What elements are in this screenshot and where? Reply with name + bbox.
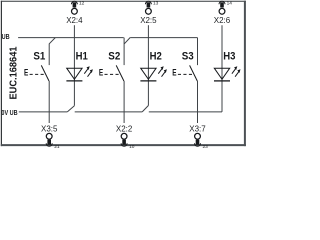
wire: UB tap diagonal to S1 — [49, 38, 55, 44]
plug pin X2:5 (top) — [145, 1, 151, 7]
plug pin X3:5 (bottom) — [46, 140, 52, 147]
LED H3 triangle (anode) — [214, 68, 229, 79]
LED H1 emission arrow 2 — [88, 69, 93, 76]
LED H3 emission arrow 2 — [235, 69, 240, 76]
svg-text:0V UB: 0V UB — [1, 108, 17, 117]
connector circle X2:6 — [219, 8, 225, 14]
LED H2 triangle (anode) — [141, 68, 156, 79]
wire: 0V rail segment A — [19, 111, 68, 113]
wire: 0V rail segment B — [75, 111, 143, 113]
LED H3 cathode bar — [214, 80, 230, 82]
LED H2 emission arrow 1 — [158, 66, 163, 73]
plug pin X2:2 (bottom) — [121, 140, 127, 147]
connector circle X3:5 — [46, 133, 52, 139]
svg-text:23: 23 — [203, 144, 209, 150]
svg-text:14: 14 — [227, 0, 233, 6]
wire: 0V rail segment C — [149, 111, 222, 113]
LED H2 emission arrow 2 — [162, 69, 167, 76]
wire: S1 upper terminal — [48, 44, 50, 66]
wire: 0V diagonal from H2 — [142, 106, 148, 112]
svg-text:E: E — [24, 66, 28, 77]
LED H1 cathode bar — [66, 80, 82, 82]
LED H1 emission arrow 1 — [84, 66, 89, 73]
wire: S2 lower terminal to connector — [123, 81, 125, 123]
wire: H1 branch vertical — [73, 25, 75, 106]
svg-text:S3: S3 — [182, 51, 194, 63]
wire: H3 branch vertical — [221, 25, 223, 112]
wire: UB rail segment A — [18, 37, 124, 39]
svg-text:H1: H1 — [76, 51, 88, 63]
wire: 0V diagonal from H1 — [67, 106, 74, 112]
svg-text:EUC.168641: EUC.168641 — [8, 46, 19, 99]
svg-text:13: 13 — [153, 0, 159, 6]
svg-text:X2:5: X2:5 — [140, 15, 157, 25]
wire: S1 lower terminal to connector — [48, 81, 50, 123]
svg-text:12: 12 — [79, 0, 85, 6]
switch S2 blade (NO contact) — [116, 65, 124, 81]
plug pin X2:4 (top) — [71, 1, 77, 7]
LED H3 emission arrow 1 — [232, 66, 237, 73]
svg-text:X3:7: X3:7 — [189, 124, 206, 134]
svg-text:S1: S1 — [33, 51, 45, 63]
svg-text:H2: H2 — [150, 51, 162, 63]
actuator dashed link of S3 — [178, 73, 192, 75]
border frame bottom — [1, 144, 246, 146]
connector circle X2:4 — [72, 8, 78, 14]
svg-text:E: E — [99, 66, 103, 77]
svg-text:X3:5: X3:5 — [41, 124, 58, 134]
connector circle X2:2 — [121, 133, 127, 139]
connector circle X2:5 — [146, 8, 152, 14]
svg-text:UB: UB — [2, 32, 10, 41]
svg-text:21: 21 — [54, 144, 60, 150]
connector circle X3:7 — [195, 133, 201, 139]
svg-text:X2:4: X2:4 — [66, 15, 83, 25]
wire: S2 upper terminal — [123, 38, 125, 66]
border frame top — [1, 0, 246, 2]
svg-text:H3: H3 — [223, 51, 235, 63]
wire: UB rail segment B — [130, 37, 197, 39]
svg-text:E: E — [172, 66, 176, 77]
svg-text:10: 10 — [129, 144, 135, 150]
plug pin X3:7 (bottom) — [195, 140, 201, 147]
wire: S3 lower terminal to connector — [197, 81, 199, 123]
actuator dashed link of S1 — [30, 73, 44, 75]
plug pin X2:6 (top) — [219, 1, 225, 7]
wire: UB tap diagonal to S2 — [124, 38, 130, 44]
svg-text:S2: S2 — [108, 51, 120, 63]
switch S3 blade (NO contact) — [190, 65, 198, 81]
svg-text:X2:6: X2:6 — [214, 15, 231, 25]
border frame right — [244, 1, 246, 146]
LED H1 triangle (anode) — [67, 68, 82, 79]
svg-text:X2:2: X2:2 — [116, 124, 133, 134]
wire: H2 branch vertical — [147, 25, 149, 105]
LED H2 cathode bar — [140, 80, 156, 82]
switch S1 blade (NO contact) — [41, 65, 49, 81]
wire: S3 upper terminal — [197, 38, 199, 66]
border frame left — [0, 1, 2, 146]
actuator dashed link of S2 — [105, 73, 119, 75]
